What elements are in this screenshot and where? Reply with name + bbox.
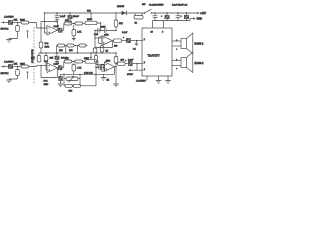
resistor feedback opamp1 (vertical): [39, 28, 43, 53]
node opamp3 inv: [40, 65, 41, 66]
node filter2 left: [95, 67, 96, 68]
wire filter1 caps row: [95, 30, 116, 32]
svg-text:+: +: [176, 48, 178, 50]
resistor mid row 3: [79, 44, 86, 47]
node fb1: [94, 37, 95, 38]
svg-text:2.2uF: 2.2uF: [54, 26, 60, 28]
capacitor C power film 1: [153, 12, 158, 20]
node P3 left: [63, 74, 64, 75]
svg-text:+: +: [123, 37, 125, 39]
svg-text:1: 1: [144, 39, 146, 41]
svg-text:4: 4: [144, 69, 146, 71]
resistor opamp2 out: [113, 39, 127, 42]
resistor fb1 to rail2 (vertical): [93, 48, 97, 53]
sign plus opamp1: [49, 32, 51, 34]
potentiometer P1: [85, 12, 97, 24]
resistor bias top (vertical): [114, 20, 118, 27]
capacitor vref bypass elco (vertical): [55, 52, 60, 64]
pin stub vcc 1: [152, 21, 154, 29]
wire feedback2 bottom: [61, 67, 115, 75]
node pot2 drop: [97, 67, 98, 68]
svg-text:100K: 100K: [101, 26, 106, 28]
node fb2: [95, 74, 96, 75]
ground input1: [6, 39, 17, 43]
IC TDA7377 body: [142, 28, 172, 76]
svg-text:4558: 4558: [44, 84, 49, 86]
resistor mid row 1: [58, 44, 65, 47]
wire sub row to node column: [81, 85, 97, 87]
capacitor C power elco 2: [181, 12, 190, 20]
svg-text:10K: 10K: [14, 63, 18, 65]
pin stub gnd 3 + ground: [165, 76, 171, 83]
svg-text:0.1uF 100uF 0.1: 0.1uF 100uF 0.1: [172, 5, 188, 7]
svg-text:C1 2200uF/25V: C1 2200uF/25V: [149, 5, 164, 7]
svg-text:+: +: [161, 15, 163, 17]
speaker BASS-2: [181, 52, 193, 73]
node mid a: [65, 52, 66, 53]
wire bias drop x116: [115, 13, 117, 31]
wire in2 to stby: [137, 64, 142, 71]
wire stub node27 b: [27, 72, 29, 79]
svg-text:4.7K: 4.7K: [77, 67, 82, 69]
sign minus opamp2: [103, 37, 105, 39]
wire opamp2 inv: [95, 37, 102, 39]
capacitor filter1 Ca: [98, 28, 100, 33]
pin stub gnd 1: [146, 76, 148, 81]
svg-text:10K: 10K: [14, 19, 18, 21]
capacitor opamp1 out elco: [58, 24, 64, 33]
capacitor opamp3 out elco: [58, 62, 64, 71]
node zobel: [115, 66, 116, 67]
resistor opamp4 in (vertical): [94, 52, 97, 62]
pin stub out1+: [172, 39, 181, 41]
svg-text:100K: 100K: [84, 58, 89, 60]
op-amp IC1B: [102, 36, 113, 46]
ground opamp4: [101, 74, 107, 80]
svg-text:50K: 50K: [87, 11, 91, 13]
resistor row2 B: [75, 60, 85, 63]
wire zobel drop: [115, 67, 117, 84]
wire mid row a: [65, 46, 68, 54]
terminal GND: [190, 17, 202, 20]
sign plus opamp4: [106, 68, 108, 70]
capacitor C power film 2: [176, 12, 181, 20]
resistor input2 pulldown (vertical): [16, 67, 20, 80]
wire mid row left: [57, 46, 58, 54]
pin stub gnd 2 + ground: [156, 76, 162, 83]
node filter1 top: [100, 22, 101, 23]
svg-text:+: +: [64, 15, 66, 17]
capacitor sub elco (vertical): [58, 74, 64, 87]
resistor row1 B: [75, 22, 85, 25]
wire pot1 to filter: [97, 23, 101, 31]
capacitor in1 small: [135, 41, 138, 46]
terminal ST-BY: [128, 69, 137, 71]
capacitor C power elco 1: [161, 12, 170, 20]
wire P3 right: [78, 74, 80, 86]
capacitor to IC in1 elco: [123, 37, 142, 43]
potentiometer sub level P3: [66, 76, 78, 83]
node bias mid: [115, 30, 116, 31]
node sub row: [72, 85, 73, 86]
svg-text:3: 3: [162, 32, 164, 34]
resistor row1 A: [64, 22, 75, 25]
capacitor bypass film on rail x57: [55, 12, 60, 22]
wire feedback opamp1 top: [41, 22, 58, 31]
svg-text:0.1: 0.1: [133, 49, 137, 51]
node opamp1 inv: [40, 27, 41, 28]
svg-text:2: 2: [144, 62, 146, 64]
svg-text:100uF: 100uF: [73, 16, 80, 18]
node IC in1: [136, 40, 137, 41]
svg-text:+: +: [181, 15, 183, 17]
svg-text:2.2uF: 2.2uF: [122, 32, 128, 34]
svg-text:1K: 1K: [107, 79, 110, 81]
capacitor input2 elco: [5, 63, 18, 68]
node input1: [17, 22, 18, 23]
svg-text:4.7uF/50V: 4.7uF/50V: [136, 81, 146, 83]
svg-text:GND: GND: [197, 18, 203, 21]
wire mid row b: [74, 46, 79, 54]
dashed separator line: [33, 27, 35, 85]
wire opamp4 inv: [96, 63, 105, 65]
resistor bias bottom (vertical): [114, 53, 118, 64]
svg-text:4.7K: 4.7K: [77, 32, 82, 34]
capacitor bypass elco on rail x70: [68, 12, 73, 23]
node IC in2: [136, 63, 137, 64]
svg-text:50K: 50K: [69, 91, 73, 93]
ground bus power: [153, 19, 191, 21]
svg-text:SW: SW: [142, 4, 145, 6]
wire feedback opamp3 bottom: [41, 66, 58, 78]
resistor divider B (vertical): [44, 52, 48, 70]
svg-text:BASS-1: BASS-1: [195, 43, 205, 46]
capacitor filter2 Ca: [99, 65, 101, 70]
op-amp IC1A: [47, 26, 58, 36]
resistor input1 series: [21, 21, 29, 24]
terminal input 2: [1, 66, 4, 68]
svg-text:+: +: [125, 60, 127, 62]
wire filter1 fb left: [95, 31, 113, 48]
svg-text:4558: 4558: [45, 47, 50, 49]
resistor opamp4 out: [115, 62, 129, 67]
svg-text:TDA7377: TDA7377: [148, 53, 161, 57]
svg-text:10K: 10K: [59, 50, 63, 52]
node pot2 in: [83, 61, 84, 62]
switch S1: [144, 9, 153, 14]
resistor row2 A: [64, 60, 75, 63]
svg-text:IC-1: IC-1: [45, 43, 50, 45]
wire filter2 caps row: [96, 67, 105, 69]
wire P3 left: [64, 74, 66, 86]
svg-text:10K: 10K: [69, 50, 73, 52]
svg-text:22K: 22K: [119, 23, 123, 25]
resistor mid row 2: [67, 44, 74, 47]
resistor row1 pulldown (vertical): [72, 25, 76, 41]
svg-text:INPUT-2: INPUT-2: [1, 73, 10, 75]
svg-text:100K: 100K: [87, 19, 92, 21]
resistor input1 pulldown (vertical): [16, 23, 20, 39]
resistor sub A: [65, 84, 72, 87]
diode D1 1N4007: [122, 11, 127, 15]
svg-text:IC-2: IC-2: [44, 81, 49, 83]
sign minus opamp4: [106, 63, 108, 65]
node bias rail2: [115, 52, 116, 53]
node input2: [17, 66, 18, 67]
capacitor filter1 Cb: [105, 28, 107, 33]
resistor input2 series: [21, 65, 29, 68]
rail VREF bottom: [39, 52, 116, 54]
svg-text:SUBWOOFER: SUBWOOFER: [32, 49, 34, 63]
svg-text:4558: 4558: [106, 60, 111, 62]
svg-text:4.7uF/50V: 4.7uF/50V: [4, 17, 14, 19]
resistor divider A (vertical): [37, 53, 41, 62]
pin tick in1: [142, 40, 144, 42]
svg-text:1K: 1K: [106, 51, 109, 53]
svg-text:13: 13: [151, 32, 154, 34]
wire mid row right: [86, 45, 88, 47]
svg-text:4558: 4558: [104, 35, 109, 37]
wire pot2 to filter: [97, 61, 98, 67]
pin stub out2-: [172, 66, 181, 70]
sign plus opamp2: [103, 42, 105, 44]
resistor sub B: [73, 84, 80, 87]
wire to opamp3: [29, 65, 48, 68]
resistor opamp4 vert inner: [101, 65, 104, 72]
capacitor filter2 Cb: [102, 65, 104, 70]
fuse F1 box under rail: [134, 13, 143, 19]
pin tick in2: [142, 63, 144, 65]
node filter1 left: [94, 30, 95, 31]
node filter1 mid: [100, 30, 101, 31]
terminal input 1: [1, 22, 4, 24]
node rail2 fb1: [40, 52, 41, 53]
node row1: [73, 23, 74, 24]
resistor row2 pulldown (vertical): [72, 63, 76, 74]
wire stub node27: [27, 31, 29, 39]
capacitor to IC in2 elco: [125, 60, 142, 66]
svg-text:5A: 5A: [135, 22, 138, 25]
svg-text:INPUT-1: INPUT-1: [1, 29, 10, 31]
wire input1: [13, 22, 21, 24]
wire filter2 node column: [95, 62, 97, 86]
pin stub vcc 2: [163, 21, 165, 29]
pin tick stby: [142, 69, 144, 71]
wire vref drop left: [45, 13, 48, 33]
svg-text:2.2uF: 2.2uF: [54, 64, 60, 66]
node row2: [73, 61, 74, 62]
svg-text:100: 100: [114, 46, 118, 48]
svg-text:+: +: [176, 68, 178, 70]
svg-text:1N4007: 1N4007: [117, 6, 125, 8]
op-amp IC2B: [105, 62, 115, 72]
node rail-left: [44, 12, 45, 13]
svg-text:10K: 10K: [50, 58, 54, 60]
node P3 right: [79, 74, 80, 75]
wire to opamp1: [29, 23, 48, 29]
terminal +12V: [196, 12, 206, 15]
sign minus opamp1: [49, 27, 51, 29]
sign plus opamp3: [49, 69, 51, 71]
capacitor input1 elco: [5, 19, 18, 24]
op-amp IC2A: [47, 63, 58, 73]
wire input2: [13, 66, 21, 68]
node mid b: [77, 52, 78, 53]
sign minus opamp3: [49, 65, 51, 67]
svg-text:+12V: +12V: [200, 12, 206, 15]
pin stub out1-: [172, 46, 181, 50]
ground input2: [6, 79, 17, 83]
resistor opamp2 noninv bias (vertical): [100, 46, 104, 54]
svg-text:BASS-2: BASS-2: [195, 62, 205, 65]
potentiometer P2: [85, 52, 97, 63]
pin stub out2+: [172, 59, 181, 61]
svg-text:ST-BY: ST-BY: [127, 74, 134, 76]
ground zobel: [113, 84, 119, 87]
power rail +12V/VREF top: [45, 12, 197, 14]
speaker BASS-1: [181, 33, 193, 54]
node bias top: [115, 12, 116, 13]
resistor opamp2 in (vertical): [99, 37, 102, 44]
